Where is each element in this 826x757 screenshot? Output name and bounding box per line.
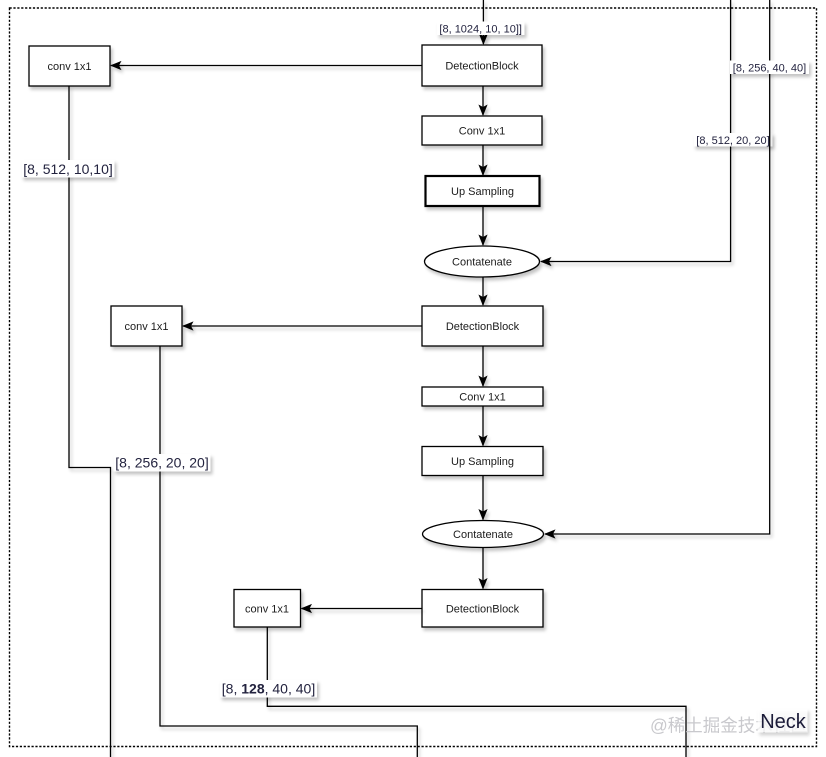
svg-text:Contatenate: Contatenate [452, 257, 512, 269]
svg-text:Neck: Neck [760, 711, 807, 733]
wire: DetectionBlock U2 to conv1x1 B (leftward arrow) [182, 321, 422, 330]
label [8, 256, 40, 40] on right skip line 2 [730, 61, 809, 75]
svg-text:Up Sampling: Up Sampling [451, 456, 514, 468]
conv 1x1 box B (middle-left) [111, 306, 182, 346]
Up Sampling box S2 [422, 447, 543, 476]
label [8, 256, 20, 20] on output wire B [114, 454, 211, 472]
svg-text:conv 1x1: conv 1x1 [124, 321, 168, 333]
svg-text:[8, 128, 40, 40]: [8, 128, 40, 40] [222, 681, 315, 697]
wire: Up Sampling S1 to Contatenate E1 [478, 206, 487, 246]
label [8, 512, 10,10] on output wire A [22, 160, 115, 178]
wire: Contatenate E1 to DetectionBlock U2 [478, 277, 487, 306]
Conv 1x1 box B1 (center column) [422, 116, 542, 145]
DetectionBlock U2 [422, 306, 543, 346]
svg-text:[8, 512, 10,10]: [8, 512, 10,10] [23, 161, 113, 177]
svg-text:DetectionBlock: DetectionBlock [446, 321, 520, 333]
svg-text:DetectionBlock: DetectionBlock [446, 604, 520, 616]
Conv 1x1 box B2 (short) [422, 387, 543, 406]
wire: input into DetectionBlock U1 from top [479, 0, 488, 45]
wire: right skip line 1 into Contatenate E1 [540, 0, 731, 266]
svg-text:Conv 1x1: Conv 1x1 [459, 392, 505, 404]
svg-text:Contatenate: Contatenate [453, 529, 513, 541]
label [8, 1024, 10, 10]] on input wire [437, 22, 525, 36]
wire: Contatenate E2 to DetectionBlock U3 [478, 548, 487, 590]
svg-text:[8, 1024, 10, 10]]: [8, 1024, 10, 10]] [439, 23, 522, 35]
svg-text:[8, 256, 40, 40]: [8, 256, 40, 40] [733, 62, 806, 74]
svg-text:[8, 256, 20, 20]: [8, 256, 20, 20] [115, 455, 208, 471]
wire: DetectionBlock U1 to conv1x1 A (leftward arrow) [110, 61, 422, 70]
DetectionBlock U1 [422, 45, 542, 86]
wire: Up Sampling S2 to Contatenate E2 [478, 476, 487, 521]
wire: output A from conv1x1 A down and out bottom [69, 86, 111, 757]
wire: output B from conv1x1 B down and out bottom [160, 346, 417, 757]
Up Sampling box S1 (thick border) [426, 176, 540, 206]
DetectionBlock U3 [422, 590, 543, 628]
Contatenate ellipse E2 [423, 521, 544, 548]
wire: Conv 1x1 B1 to Up Sampling S1 [478, 145, 487, 176]
wire: DetectionBlock U2 to Conv 1x1 B2 [478, 346, 487, 387]
svg-text:DetectionBlock: DetectionBlock [445, 61, 519, 73]
svg-text:conv 1x1: conv 1x1 [47, 61, 91, 73]
conv 1x1 box C (bottom) [234, 590, 301, 628]
conv 1x1 box A (top-left) [29, 46, 110, 86]
svg-text:[8, 512, 20, 20]: [8, 512, 20, 20] [696, 135, 769, 147]
wire: Conv 1x1 B2 to Up Sampling S2 [478, 406, 487, 447]
wire: output C from conv1x1 C down and out bottom [267, 627, 686, 757]
svg-text:Up Sampling: Up Sampling [451, 186, 514, 198]
label [8, 128, 40, 40] on output wire C (128 bold) [220, 680, 317, 698]
wire: DetectionBlock U3 to conv1x1 C (leftward arrow) [301, 604, 423, 613]
wire: DetectionBlock U1 to Conv 1x1 B1 [478, 86, 487, 116]
svg-text:conv 1x1: conv 1x1 [245, 604, 289, 616]
svg-text:Conv 1x1: Conv 1x1 [459, 126, 505, 138]
wire: right skip line 2 into Contatenate E2 [544, 0, 770, 539]
Neck region title label [758, 709, 808, 733]
Contatenate ellipse E1 [425, 246, 540, 277]
label [8, 512, 20, 20] on right skip line 1 [694, 133, 773, 147]
